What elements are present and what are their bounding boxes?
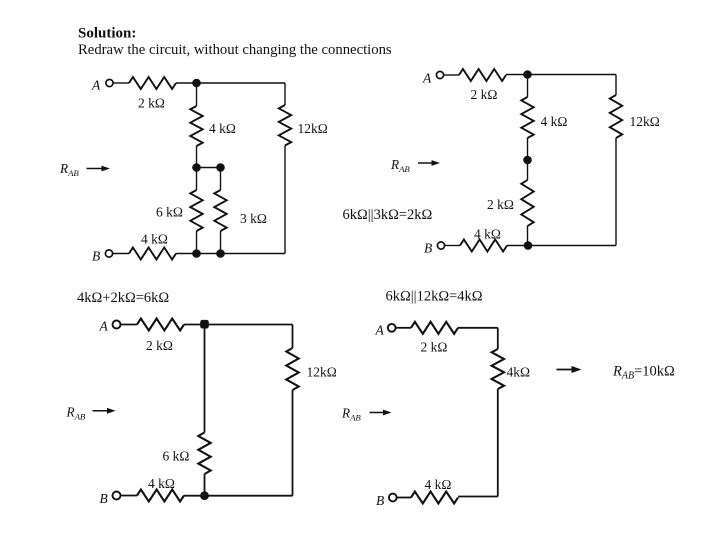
wire bottom node to right rail (circuit 3) <box>184 495 293 497</box>
subtitle: Redraw the circuit instruction <box>78 42 392 58</box>
svg-text:2 kΩ: 2 kΩ <box>471 87 498 102</box>
terminal A (circuit 2) <box>436 71 443 78</box>
svg-text:6 kΩ: 6 kΩ <box>156 205 183 220</box>
wire right rail upper (circuit 2) <box>615 75 617 96</box>
wire R 4k down to bottom corner (circuit 4) <box>497 389 499 497</box>
terminal A (circuit 3) <box>113 321 121 329</box>
svg-text:4 kΩ: 4 kΩ <box>148 476 175 491</box>
svg-text:A: A <box>91 78 101 93</box>
svg-text:2 kΩ: 2 kΩ <box>487 197 514 212</box>
resistor 4k&#937; horizontal (circuit 4) <box>411 492 458 504</box>
svg-text:2 kΩ: 2 kΩ <box>421 340 448 355</box>
svg-text:B: B <box>424 241 432 256</box>
svg-text:12kΩ: 12kΩ <box>298 121 328 136</box>
resistor 4k&#937; horizontal (circuit 2) <box>460 240 507 252</box>
value label 6k&#937; (circuit 3) <box>163 449 190 464</box>
resistor 6k&#937; vertical (circuit 1) <box>190 190 202 231</box>
arrow RAB (circuit 3) <box>93 408 116 414</box>
wire bottom node to right rail (circuit 1) <box>176 253 285 255</box>
wire right rail upper (circuit 1) <box>284 83 286 105</box>
svg-text:4kΩ+2kΩ=6kΩ: 4kΩ+2kΩ=6kΩ <box>77 290 169 306</box>
wire A to R 2k (circuit 3) <box>121 324 137 326</box>
value label 4k&#937; horizontal (circuit 4) <box>425 477 452 492</box>
terminal A (circuit 1) <box>106 79 113 86</box>
wire top node down to R 4k (circuit 2) <box>527 75 529 98</box>
resistor 4k&#937; vertical (circuit 2) <box>521 97 533 138</box>
label B (circuit 4) <box>376 493 384 508</box>
arrow RAB (circuit 1) <box>87 166 111 172</box>
value label 6k&#937; (circuit 1) <box>156 205 183 220</box>
wire right rail to R 12k (circuit 3) <box>292 325 294 349</box>
label B (circuit 2) <box>424 241 432 256</box>
svg-text:2 kΩ: 2 kΩ <box>146 338 173 353</box>
value label 4k&#937; bottom (circuit 1) <box>141 232 168 247</box>
resistor 3k&#937; vertical (circuit 1) <box>214 190 226 231</box>
label B (circuit 1) <box>92 249 100 264</box>
node dot mid (circuit 2) <box>523 156 532 165</box>
wire B to R 4k (circuit 4) <box>397 497 411 499</box>
svg-text:A: A <box>422 71 432 86</box>
node square top (circuit 3) <box>200 320 209 329</box>
svg-text:4 kΩ: 4 kΩ <box>425 477 452 492</box>
equation 6k||12k=4k <box>386 289 483 305</box>
label RAB (circuit 3) <box>66 405 86 422</box>
result RAB=10k (circuit 4) <box>612 364 675 382</box>
wire R 6k to bottom node (circuit 3) <box>204 474 206 496</box>
value label 2k&#937; (circuit 4) <box>421 340 448 355</box>
svg-text:B: B <box>376 493 384 508</box>
value label 4k&#937; (circuit 1) <box>209 121 236 136</box>
svg-text:RAB: RAB <box>66 405 86 422</box>
resistor 6k&#937; vertical (circuit 3) <box>198 433 210 475</box>
svg-text:RAB: RAB <box>341 406 361 423</box>
label A (circuit 4) <box>375 323 385 338</box>
wire R 2k vertical to bottom node (circuit 2) <box>527 226 529 246</box>
svg-text:4 kΩ: 4 kΩ <box>209 121 236 136</box>
svg-text:B: B <box>100 491 108 506</box>
svg-text:4 kΩ: 4 kΩ <box>141 232 168 247</box>
wire bottom node to right rail (circuit 2) <box>507 245 616 247</box>
wire mid node to R 2k vertical (circuit 2) <box>527 160 529 180</box>
svg-text:RAB: RAB <box>59 161 79 178</box>
value label 12k&#937; (circuit 3) <box>307 365 337 380</box>
svg-text:RAB: RAB <box>390 157 410 174</box>
value label 2k&#937; vertical (circuit 2) <box>487 197 514 212</box>
resistor 12k&#937; vertical (circuit 2) <box>610 95 622 138</box>
node dot mid-left (circuit 1) <box>192 163 201 172</box>
wire top node to right rail (circuit 1) <box>176 82 285 84</box>
node dot bottom-right (circuit 1) <box>216 249 225 258</box>
label A (circuit 3) <box>99 319 109 334</box>
terminal A (circuit 4) <box>388 324 396 332</box>
node dot bottom-left (circuit 1) <box>192 249 201 258</box>
wire top node to right rail (circuit 3) <box>184 324 293 326</box>
node dot bottom (circuit 3) <box>200 491 209 500</box>
resistor 2k&#937; vertical (circuit 2) <box>521 180 533 226</box>
svg-text:4 kΩ: 4 kΩ <box>541 114 568 129</box>
resistor 4k&#937; vertical (circuit 4) <box>492 349 504 389</box>
wire R 4k to mid node (circuit 2) <box>527 138 529 160</box>
label RAB (circuit 2) <box>390 157 410 174</box>
arrow RAB (circuit 4) <box>370 410 392 416</box>
wire R 3k to bottom node (circuit 1) <box>220 231 222 254</box>
value label 12k&#937; (circuit 1) <box>298 121 328 136</box>
value label 4k&#937; (circuit 3) <box>148 476 175 491</box>
wire between mid nodes (circuit 1) <box>197 167 221 169</box>
wire corner down to R 4k (circuit 4) <box>497 328 499 349</box>
value label 4k&#937; horizontal (circuit 2) <box>474 227 501 242</box>
wire A to R 2k (circuit 1) <box>113 82 129 84</box>
label B (circuit 3) <box>100 491 108 506</box>
svg-text:6 kΩ: 6 kΩ <box>163 449 190 464</box>
terminal B (circuit 1) <box>105 250 112 257</box>
node dot top (circuit 2) <box>523 70 532 79</box>
wire B to R 4k (circuit 3) <box>121 495 137 497</box>
resistor 12k&#937; vertical (circuit 1) <box>279 105 291 146</box>
value label 2k&#937; (circuit 1) <box>138 96 165 111</box>
wire R 6k to bottom node (circuit 1) <box>196 231 198 254</box>
wire B to R 4k (circuit 2) <box>445 245 460 247</box>
resistor 2k&#937; horizontal (circuit 4) <box>411 322 458 334</box>
terminal B (circuit 2) <box>437 242 444 249</box>
wire A to R 2k (circuit 2) <box>444 74 459 76</box>
wire B to R 4k bottom (circuit 1) <box>113 253 129 255</box>
value label 4k&#937; (circuit 2) <box>541 114 568 129</box>
svg-text:Redraw the circuit, without ch: Redraw the circuit, without changing the… <box>78 42 392 58</box>
svg-text:2 kΩ: 2 kΩ <box>138 96 165 111</box>
svg-text:6kΩ||12kΩ=4kΩ: 6kΩ||12kΩ=4kΩ <box>386 289 483 305</box>
wire right rail lower (circuit 3) <box>292 390 294 496</box>
resistor 2k&#937; horizontal (circuit 2) <box>459 69 506 81</box>
resistor 4k&#937; horizontal bottom (circuit 1) <box>129 248 176 260</box>
wire mid-right node to R 3k (circuit 1) <box>220 168 222 191</box>
label RAB (circuit 1) <box>59 161 79 178</box>
svg-text:RAB=10kΩ: RAB=10kΩ <box>612 364 675 382</box>
wire A to R 2k (circuit 4) <box>396 327 411 329</box>
svg-text:A: A <box>99 319 109 334</box>
resistor 4k&#937; horizontal (circuit 3) <box>137 490 184 502</box>
equation 6k||3k=2k <box>343 207 433 223</box>
label A (circuit 1) <box>91 78 101 93</box>
arrow result (circuit 4) <box>557 366 582 373</box>
svg-text:A: A <box>375 323 385 338</box>
node dot bottom (circuit 2) <box>524 241 533 250</box>
wire top node down to R 4k (circuit 1) <box>196 83 198 106</box>
svg-text:3 kΩ: 3 kΩ <box>240 211 267 226</box>
wire R 4k to mid node (circuit 1) <box>196 146 198 168</box>
value label 2k&#937; (circuit 2) <box>471 87 498 102</box>
equation 4k+2k=6k <box>77 290 169 306</box>
resistor 2k&#937; horizontal (circuit 1) <box>129 77 176 89</box>
svg-text:6kΩ||3kΩ=2kΩ: 6kΩ||3kΩ=2kΩ <box>343 207 433 223</box>
svg-text:4 kΩ: 4 kΩ <box>474 227 501 242</box>
title: Solution heading <box>78 26 136 42</box>
value label 3k&#937; (circuit 1) <box>240 211 267 226</box>
wire bottom corner to R 4k horizontal (circuit 4) <box>458 496 498 498</box>
value label 12k&#937; (circuit 2) <box>630 114 660 129</box>
wire right rail lower (circuit 1) <box>284 146 286 254</box>
svg-text:Solution:: Solution: <box>78 26 136 42</box>
value label 4k&#937; vertical (circuit 4) <box>507 365 531 380</box>
terminal B (circuit 4) <box>389 494 397 502</box>
resistor 2k&#937; horizontal (circuit 3) <box>137 319 184 331</box>
resistor 12k&#937; vertical (circuit 3) <box>286 348 298 390</box>
label A (circuit 2) <box>422 71 432 86</box>
label RAB (circuit 4) <box>341 406 361 423</box>
svg-text:12kΩ: 12kΩ <box>630 114 660 129</box>
node dot mid-right (circuit 1) <box>216 163 225 172</box>
resistor 4k&#937; vertical (circuit 1) <box>190 106 202 146</box>
terminal B (circuit 3) <box>113 492 121 500</box>
wire mid-left node to R 6k (circuit 1) <box>196 168 198 191</box>
arrow RAB (circuit 2) <box>418 160 440 166</box>
wire top node to right rail (circuit 2) <box>506 74 616 76</box>
wire R 2k to corner (circuit 4) <box>458 327 498 329</box>
wire right rail lower (circuit 2) <box>615 138 617 246</box>
value label 2k&#937; (circuit 3) <box>146 338 173 353</box>
svg-text:B: B <box>92 249 100 264</box>
wire node down to R 6k (circuit 3) <box>204 324 206 432</box>
node dot top (circuit 1) <box>192 79 201 88</box>
svg-text:12kΩ: 12kΩ <box>307 365 337 380</box>
svg-text:4kΩ: 4kΩ <box>507 365 531 380</box>
